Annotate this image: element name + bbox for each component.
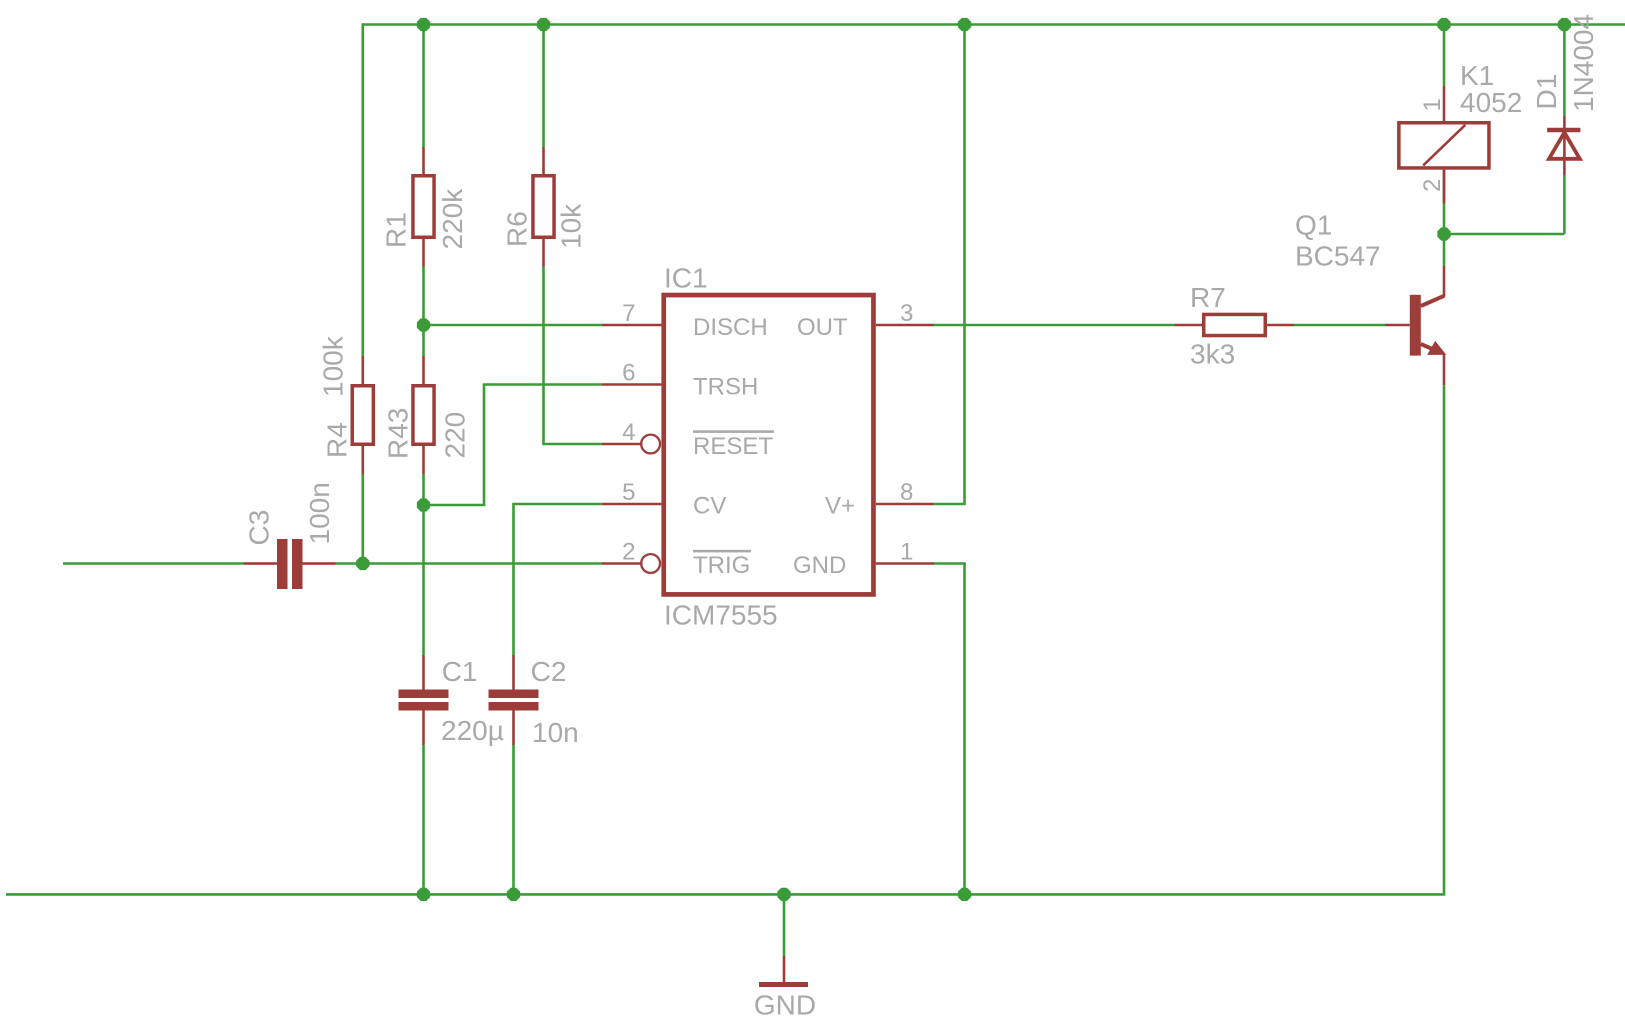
junction ground rail / pin1	[958, 888, 971, 901]
resistor R6 10k	[533, 147, 554, 267]
svg-text:3k3: 3k3	[1190, 339, 1235, 370]
pin 6 TRSH lead	[602, 383, 661, 386]
wire R6 bottom to RESET pin4	[544, 267, 603, 445]
junction C3 / R4 / TRIG	[356, 557, 369, 570]
wire DISCH pin7 net	[424, 324, 603, 327]
svg-text:1N4004: 1N4004	[1568, 14, 1599, 112]
junction TRSH / R43 / C1	[417, 498, 430, 511]
wire relay K1 pin2 down	[1443, 170, 1446, 234]
capacitor C1 220u	[399, 655, 449, 745]
svg-text:GND: GND	[754, 990, 816, 1021]
junction ground rail / GND symbol	[777, 888, 790, 901]
wire top V+ rail	[363, 23, 1625, 26]
svg-text:220k: 220k	[437, 188, 468, 250]
svg-text:10n: 10n	[532, 717, 579, 748]
pin 4 inversion bubble	[641, 435, 660, 454]
capacitor C3 100n	[244, 539, 336, 589]
svg-text:V+: V+	[825, 493, 855, 520]
pin 2 TRIG lead	[602, 562, 642, 565]
svg-text:220: 220	[440, 412, 471, 459]
wire R6 top to rail	[542, 25, 545, 148]
svg-text:R7: R7	[1190, 282, 1226, 313]
resistor R1 220k	[413, 147, 434, 267]
wire R1 bottom to R43 top	[422, 267, 425, 357]
svg-text:5: 5	[622, 479, 635, 506]
svg-text:R1: R1	[381, 212, 412, 248]
svg-text:IC1: IC1	[664, 263, 708, 294]
svg-text:D1: D1	[1531, 74, 1562, 110]
wire TRSH pin6 net	[424, 385, 603, 506]
wire R43 bottom to C1 top	[422, 474, 425, 655]
svg-text:TRSH: TRSH	[693, 374, 758, 401]
svg-text:ICM7555: ICM7555	[664, 600, 778, 631]
svg-text:100n: 100n	[304, 482, 335, 544]
wire relay K1 pin1 to rail	[1443, 25, 1446, 87]
wire TRIG net left segment	[63, 562, 244, 565]
relay K1 4052 coil	[1399, 86, 1489, 203]
transistor Q1 BC547	[1385, 266, 1446, 385]
svg-text:C2: C2	[531, 656, 567, 687]
junction rail / D1	[1558, 18, 1571, 31]
svg-text:8: 8	[900, 479, 913, 506]
svg-text:4: 4	[622, 419, 635, 446]
svg-text:RESET: RESET	[693, 433, 773, 460]
svg-text:C3: C3	[244, 510, 275, 546]
capacitor C2 10n	[489, 655, 539, 745]
svg-text:220µ: 220µ	[441, 715, 504, 746]
diode D1 1N4004	[1547, 115, 1580, 175]
resistor R43 220	[413, 356, 434, 474]
junction DISCH / R1 / R43	[417, 318, 430, 331]
svg-text:R43: R43	[383, 408, 414, 459]
svg-text:OUT: OUT	[797, 314, 848, 341]
wire V+ pin8 to rail	[934, 25, 965, 505]
wire GND symbol tap	[783, 894, 786, 956]
pin 4 RESET lead	[602, 443, 642, 446]
svg-text:1: 1	[900, 539, 913, 566]
junction rail / R1	[417, 18, 430, 31]
wire R7 to Q1 base	[1294, 324, 1385, 327]
junction K1 pin2 / collector / D1	[1437, 227, 1450, 240]
wire C1 bottom to ground rail	[422, 745, 425, 894]
svg-text:6: 6	[622, 360, 635, 387]
wire D1 top to rail	[1563, 25, 1566, 116]
svg-text:R6: R6	[502, 211, 533, 247]
svg-text:BC547: BC547	[1295, 240, 1381, 271]
svg-text:7: 7	[622, 300, 635, 327]
svg-text:100k: 100k	[318, 335, 349, 397]
svg-text:1: 1	[1419, 98, 1446, 111]
svg-text:DISCH: DISCH	[693, 314, 768, 341]
junction rail / R6	[537, 18, 550, 31]
svg-text:CV: CV	[693, 493, 726, 520]
wire Q1 collector to relay node	[1443, 234, 1446, 266]
pin 3 OUT lead	[876, 324, 934, 327]
svg-text:R4: R4	[322, 422, 353, 458]
svg-text:3: 3	[900, 300, 913, 327]
wire CV pin5 to C2 top	[514, 504, 603, 655]
junction ground rail / C2	[507, 888, 520, 901]
IC IC1 ICM7555 box	[664, 295, 874, 594]
wire OUT pin3 to R7	[934, 324, 1175, 327]
pin 5 CV lead	[602, 503, 661, 506]
junction ground rail / C1	[417, 888, 430, 901]
TRIG overline	[693, 550, 751, 553]
resistor R7 3k3	[1175, 314, 1294, 335]
pin 7 DISCH lead	[602, 324, 661, 327]
wire relay node to D1 bottom	[1444, 233, 1564, 236]
svg-text:C1: C1	[442, 656, 478, 687]
pin 1 GND lead	[876, 562, 934, 565]
svg-text:2: 2	[1419, 179, 1446, 192]
ground symbol GND	[759, 956, 808, 985]
wire TRIG net from C3 to pin2	[336, 562, 603, 565]
svg-text:2: 2	[622, 539, 635, 566]
wire GND pin1 to ground rail	[934, 564, 965, 895]
resistor R4 100k	[352, 356, 373, 474]
svg-text:TRIG: TRIG	[693, 552, 750, 579]
junction rail / K1	[1437, 18, 1450, 31]
svg-text:GND: GND	[793, 552, 846, 579]
junction rail / V+	[958, 18, 971, 31]
wire ground rail	[6, 385, 1444, 894]
RESET overline	[693, 430, 774, 433]
wire D1 bottom vertical	[1563, 175, 1566, 234]
wire C2 bottom to ground rail	[512, 745, 515, 894]
pin 8 V+ lead	[876, 503, 934, 506]
pin 2 inversion bubble	[641, 554, 660, 573]
svg-text:10k: 10k	[556, 203, 587, 249]
svg-text:4052: 4052	[1460, 87, 1522, 118]
wire left vertical to R4	[361, 23, 364, 356]
wire R1 top to rail	[422, 25, 425, 148]
svg-text:Q1: Q1	[1295, 210, 1332, 241]
wire R4 bottom to TRIG net	[361, 474, 364, 564]
